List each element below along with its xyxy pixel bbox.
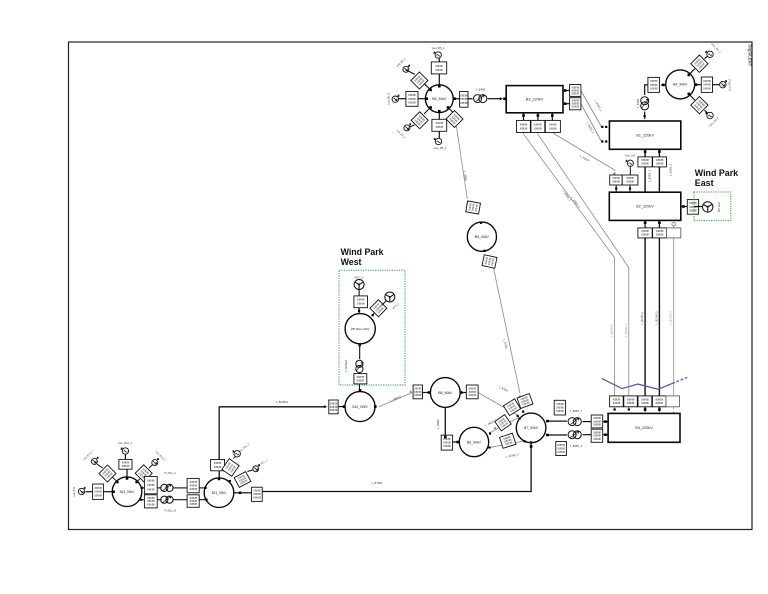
svg-text:T_B3B5: T_B3B5	[476, 88, 486, 92]
svg-text:8.88 88: 8.88 88	[147, 483, 155, 487]
svg-text:L_B1B2_2: L_B1B2_2	[669, 163, 673, 176]
svg-text:8.88 88: 8.88 88	[414, 390, 422, 394]
svg-text:8.88 88: 8.88 88	[656, 162, 664, 166]
svg-text:8.88 88: 8.88 88	[94, 490, 102, 494]
svg-text:8.88 88: 8.88 88	[122, 464, 130, 468]
svg-text:L_B6B8: L_B6B8	[436, 419, 440, 429]
svg-text:8.88 88: 8.88 88	[414, 386, 422, 390]
svg-text:B4_220kV: B4_220kV	[635, 426, 653, 430]
svg-text:Wind Park: Wind Park	[341, 247, 384, 257]
svg-text:8.88 88: 8.88 88	[414, 393, 422, 397]
svg-text:8.88 88: 8.88 88	[689, 201, 697, 205]
svg-text:8.88 88: 8.88 88	[460, 93, 468, 97]
svg-text:B8_90kV: B8_90kV	[438, 391, 453, 395]
svg-text:8.88 88: 8.88 88	[147, 487, 155, 491]
svg-text:8.88 88: 8.88 88	[94, 486, 102, 490]
svg-text:8.88 88: 8.88 88	[556, 402, 564, 406]
svg-text:8.88 88: 8.88 88	[656, 158, 664, 162]
svg-text:Wind Park: Wind Park	[695, 168, 738, 178]
svg-text:8.88 88: 8.88 88	[214, 465, 222, 469]
svg-text:L_B10B11: L_B10B11	[276, 400, 289, 404]
svg-text:8.88 88: 8.88 88	[357, 298, 365, 302]
svg-text:B9_90kV: B9_90kV	[475, 235, 490, 239]
svg-text:B6_90kV: B6_90kV	[467, 440, 482, 444]
svg-text:East: East	[695, 178, 714, 188]
svg-text:8.88 88: 8.88 88	[469, 390, 477, 394]
svg-text:B4_90kV: B4_90kV	[673, 83, 688, 87]
svg-text:8.88 88: 8.88 88	[626, 176, 634, 180]
svg-text:8.88 88: 8.88 88	[94, 493, 102, 497]
svg-text:8.88 88: 8.88 88	[534, 122, 542, 126]
svg-text:8.88 88: 8.88 88	[549, 122, 557, 126]
svg-text:8.88 88: 8.88 88	[460, 101, 468, 105]
svg-text:8.88 88: 8.88 88	[408, 101, 416, 105]
svg-text:8.88 88: 8.88 88	[703, 87, 711, 91]
svg-text:8.88 88: 8.88 88	[330, 401, 338, 405]
svg-text:8.88 88: 8.88 88	[408, 97, 416, 101]
svg-text:8.88 88: 8.88 88	[435, 68, 443, 72]
svg-text:8.88 88: 8.88 88	[460, 97, 468, 101]
svg-text:B12_90kV: B12_90kV	[120, 490, 136, 494]
svg-text:8.88 88: 8.88 88	[436, 125, 444, 129]
svg-text:8.88 88: 8.88 88	[641, 229, 649, 233]
svg-text:8.88 88: 8.88 88	[549, 126, 557, 130]
svg-text:L_B3 B4_2: L_B3 B4_2	[624, 323, 628, 337]
svg-text:8.88 88: 8.88 88	[469, 386, 477, 390]
svg-text:8.88 88: 8.88 88	[557, 443, 565, 447]
svg-text:B5_90kV: B5_90kV	[432, 97, 447, 101]
svg-text:8.88 88: 8.88 88	[656, 397, 664, 401]
svg-text:8.88 88: 8.88 88	[443, 444, 451, 448]
svg-text:B2_220kV: B2_220kV	[636, 205, 654, 209]
svg-text:8.88 88: 8.88 88	[556, 409, 564, 413]
svg-text:8.88 88: 8.88 88	[627, 397, 635, 401]
svg-text:8.88 88: 8.88 88	[641, 401, 649, 405]
svg-text:8.88 88: 8.88 88	[627, 401, 635, 405]
svg-text:B10_90kV: B10_90kV	[352, 405, 368, 409]
svg-text:Lod_B4_2: Lod_B4_2	[728, 79, 732, 91]
svg-text:8.88 88: 8.88 88	[556, 406, 564, 410]
svg-text:Gen_B5_2: Gen_B5_2	[434, 146, 447, 150]
svg-text:8.88 88: 8.88 88	[190, 480, 198, 484]
svg-text:8.88 88: 8.88 88	[557, 450, 565, 454]
svg-text:T_B4B7_1: T_B4B7_1	[570, 409, 583, 413]
svg-text:B7_90kV: B7_90kV	[524, 426, 539, 430]
svg-text:B1_220kV: B1_220kV	[636, 134, 654, 138]
svg-text:8.88 88: 8.88 88	[520, 122, 528, 126]
svg-text:Gen_N2: Gen_N2	[625, 154, 636, 158]
svg-text:West: West	[341, 257, 362, 267]
svg-text:8.88 88: 8.88 88	[656, 233, 664, 237]
svg-text:8.88 88: 8.88 88	[641, 158, 649, 162]
svg-text:Lod_B12: Lod_B12	[73, 486, 76, 497]
svg-text:8.88 88: 8.88 88	[520, 126, 528, 130]
svg-text:WTG_1: WTG_1	[355, 275, 364, 279]
svg-text:8.88 88: 8.88 88	[641, 233, 649, 237]
svg-text:8.88 88: 8.88 88	[703, 83, 711, 87]
svg-text:L_B2 B4_3: L_B2 B4_3	[669, 311, 673, 325]
svg-text:8.88 88: 8.88 88	[689, 208, 697, 212]
svg-text:8.88 88: 8.88 88	[650, 79, 658, 83]
svg-text:8.88 88: 8.88 88	[656, 229, 664, 233]
svg-text:8.88 88: 8.88 88	[190, 484, 198, 488]
svg-text:8.88 88: 8.88 88	[534, 126, 542, 130]
svg-text:Trf_B11_A: Trf_B11_A	[164, 472, 176, 475]
svg-text:8.88 88: 8.88 88	[253, 489, 261, 493]
svg-text:8.88 88: 8.88 88	[435, 64, 443, 68]
svg-text:8.88 88: 8.88 88	[641, 162, 649, 166]
svg-text:Gen_B12_A: Gen_B12_A	[118, 441, 132, 445]
svg-text:8.88 88: 8.88 88	[650, 87, 658, 91]
svg-text:Lod_B5_3: Lod_B5_3	[386, 93, 390, 105]
svg-text:8.88 88: 8.88 88	[626, 180, 634, 184]
svg-text:8.88 88: 8.88 88	[147, 503, 155, 507]
svg-text:8.88 88: 8.88 88	[593, 423, 601, 427]
svg-text:L_B2 B4_2: L_B2 B4_2	[654, 311, 658, 325]
svg-text:8.88 88: 8.88 88	[613, 401, 621, 405]
svg-text:L_B1B2_1: L_B1B2_1	[648, 169, 652, 182]
svg-text:Trf_B11_B: Trf_B11_B	[164, 510, 176, 513]
svg-text:8.88 88: 8.88 88	[330, 408, 338, 412]
svg-text:8.88 88: 8.88 88	[357, 302, 365, 306]
svg-text:8.88 88: 8.88 88	[190, 502, 198, 506]
svg-text:8.88 88: 8.88 88	[572, 91, 580, 95]
svg-text:8.88 88: 8.88 88	[443, 441, 451, 445]
svg-text:T_B1B4: T_B1B4	[636, 98, 640, 108]
svg-text:8.88 88: 8.88 88	[572, 105, 580, 109]
svg-text:8.88 88: 8.88 88	[330, 405, 338, 409]
svg-text:8.88 88: 8.88 88	[147, 479, 155, 483]
svg-text:T_WPWest: T_WPWest	[345, 359, 348, 372]
svg-text:8.88 88: 8.88 88	[214, 461, 222, 465]
svg-text:DIgSILENT: DIgSILENT	[748, 45, 753, 67]
svg-text:8.88 88: 8.88 88	[357, 375, 365, 379]
svg-text:WP West 20kV: WP West 20kV	[351, 327, 370, 331]
svg-text:8.88 88: 8.88 88	[641, 397, 649, 401]
svg-text:8.88 88: 8.88 88	[357, 378, 365, 382]
svg-text:8.88 88: 8.88 88	[408, 93, 416, 97]
svg-text:8.88 88: 8.88 88	[612, 180, 620, 184]
svg-text:Gen_B5_1: Gen_B5_1	[432, 46, 445, 50]
svg-text:8.88 88: 8.88 88	[436, 121, 444, 125]
svg-text:8.88 88: 8.88 88	[253, 496, 261, 500]
svg-text:B3_220kV: B3_220kV	[526, 98, 544, 102]
svg-text:8.88 88: 8.88 88	[469, 393, 477, 397]
svg-text:8.88 88: 8.88 88	[703, 79, 711, 83]
svg-text:L_B2 B4_1: L_B2 B4_1	[640, 311, 644, 325]
svg-text:8.88 88: 8.88 88	[253, 492, 261, 496]
svg-text:8.88 88: 8.88 88	[650, 83, 658, 87]
svg-text:B11_90kV: B11_90kV	[212, 491, 227, 495]
svg-text:L_B7B11: L_B7B11	[372, 481, 383, 485]
svg-text:WP East: WP East	[717, 202, 721, 212]
svg-text:8.88 88: 8.88 88	[613, 397, 621, 401]
svg-text:T_B4B7_2: T_B4B7_2	[570, 444, 583, 448]
svg-text:8.88 88: 8.88 88	[190, 487, 198, 491]
svg-text:8.88 88: 8.88 88	[656, 401, 664, 405]
svg-text:8.88 88: 8.88 88	[593, 437, 601, 441]
svg-text:L_B3 B4_1: L_B3 B4_1	[610, 323, 614, 337]
svg-text:8.88 88: 8.88 88	[612, 176, 620, 180]
svg-text:8.88 88: 8.88 88	[557, 446, 565, 450]
